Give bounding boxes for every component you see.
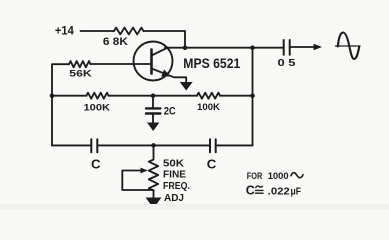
ground pot arrow (146, 198, 162, 209)
svg-text:ADJ: ADJ (164, 193, 184, 204)
text C approx .022 uF (246, 183, 301, 197)
wiper arm wire (122, 168, 153, 190)
wire left rail (52, 64, 69, 145)
svg-text:C: C (207, 156, 217, 171)
svg-text:0 5: 0 5 (278, 58, 296, 69)
text FOR 1000 cycles (247, 171, 303, 182)
wire base lead (91, 63, 152, 65)
svg-text:C: C (246, 183, 255, 197)
node 2C junction (151, 93, 156, 98)
node left rail junction (50, 93, 55, 98)
svg-text:6 8K: 6 8K (103, 36, 128, 48)
resistor R2 56K (69, 61, 92, 79)
svg-text:FREQ.: FREQ. (163, 181, 190, 192)
potentiometer R5 50K (149, 145, 190, 203)
wire C row right (216, 144, 253, 146)
resistor R4 100K (197, 93, 220, 112)
wire 100K row right (220, 95, 253, 97)
svg-text:50K: 50K (163, 158, 185, 169)
wire C row middle (97, 144, 210, 146)
capacitor C4 0.5 output (278, 40, 296, 69)
ground emitter arrow (180, 82, 193, 91)
node collector junction (183, 45, 188, 50)
node pot junction (151, 143, 156, 148)
svg-text:2C: 2C (164, 106, 176, 118)
capacitor C1 (91, 139, 101, 171)
resistor R3 100K (84, 93, 111, 113)
wire right rail (252, 48, 254, 146)
svg-text:+14: +14 (55, 26, 75, 38)
wire R1 to collector node (144, 31, 186, 48)
scan shadow band bottom (0, 204, 389, 210)
svg-text:FOR: FOR (247, 171, 263, 182)
svg-text:100K: 100K (84, 103, 111, 113)
svg-text:C: C (91, 157, 101, 172)
wire +14 to R1 (81, 30, 115, 32)
node right rail junction (250, 93, 255, 98)
sine wave output symbol (336, 32, 361, 59)
svg-text:.022: .022 (268, 186, 290, 197)
node output rail junction (250, 45, 255, 50)
capacitor C3 2C (146, 96, 176, 123)
ground 2C arrow (147, 123, 159, 132)
capacitor C2 (207, 139, 217, 171)
svg-text:1000: 1000 (268, 171, 289, 182)
svg-text:100K: 100K (197, 102, 220, 112)
svg-text:56K: 56K (69, 69, 92, 79)
svg-text:FINE: FINE (163, 170, 186, 181)
wire output arrow (290, 44, 322, 50)
svg-text:μF: μF (291, 186, 302, 197)
transistor Q1 MPS 6521 (134, 42, 241, 83)
svg-text:MPS 6521: MPS 6521 (183, 55, 240, 71)
wire C row left (52, 144, 91, 146)
wire collector output row (165, 47, 283, 49)
wire 100K row middle (109, 95, 197, 97)
wire 100K row left (52, 95, 86, 97)
resistor R1 6.8K (103, 28, 144, 49)
